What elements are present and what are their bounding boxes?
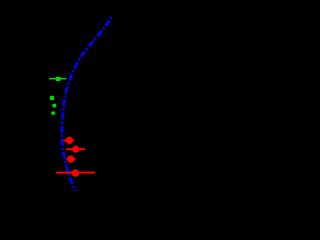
- green point G4 marker: [51, 111, 55, 115]
- model curve (blue dash-dot): [62, 17, 112, 192]
- green point G1 marker: [56, 77, 61, 81]
- red point R1 marker: [66, 137, 73, 144]
- green point G1 error bar: [49, 78, 66, 80]
- red point R3 error bar: [67, 158, 76, 160]
- red point R2 error bar: [66, 148, 85, 150]
- red point R4 marker: [72, 169, 79, 176]
- red point R3 marker: [67, 155, 74, 162]
- red point R2 marker: [72, 146, 79, 153]
- red point R1 error bar: [63, 140, 74, 142]
- red point R4 error bar: [56, 172, 95, 174]
- green point G2 marker: [50, 96, 54, 100]
- green point G3 marker: [52, 104, 56, 108]
